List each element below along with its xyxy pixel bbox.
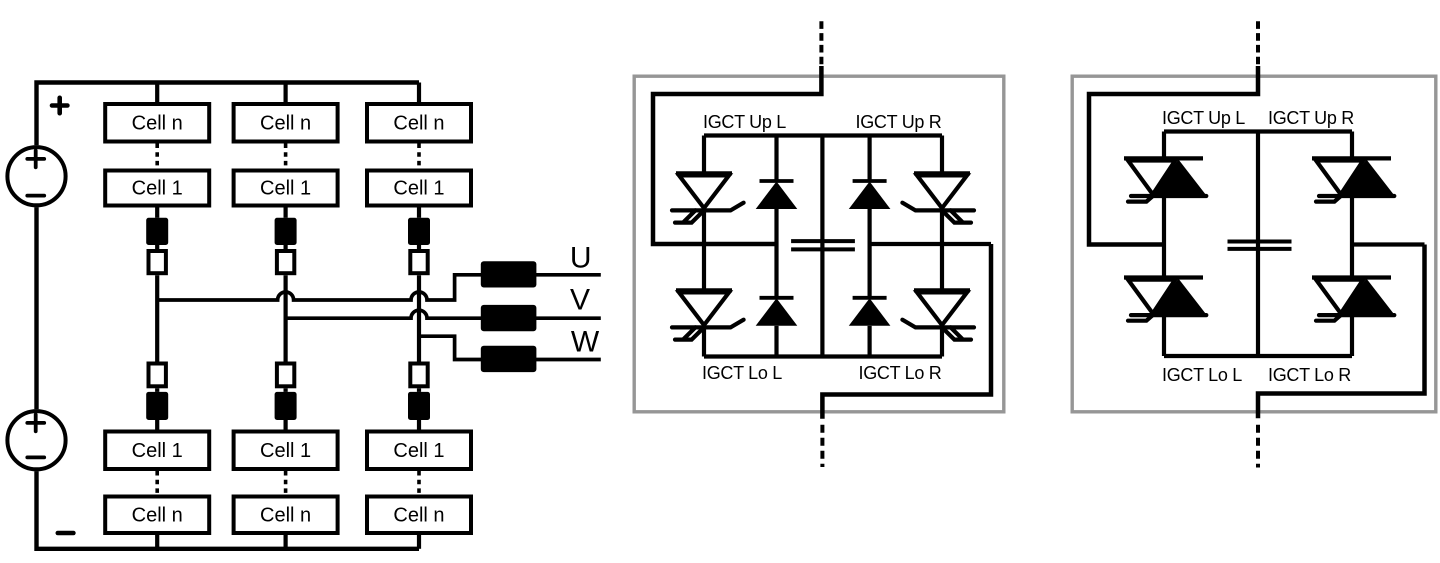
diode Lo R: [849, 298, 891, 326]
IGCT Up L (reverse conducting): [1124, 158, 1206, 201]
cell box Cell n (lower arm, phase W): [367, 497, 471, 534]
IGCT Lo R (reverse conducting): [1312, 278, 1394, 321]
wire phase W output: [419, 336, 601, 359]
dashed wire (cells n..1): [417, 144, 421, 169]
wire DC+ rail 2: [1164, 129, 1352, 133]
arm inductor (filled) lower: [275, 392, 297, 420]
capacitor C (DC link) 2: [1228, 242, 1292, 249]
svg-text:Cell 1: Cell 1: [260, 178, 311, 200]
label + (DC bus positive terminal): [52, 98, 67, 113]
svg-text:Cell n: Cell n: [260, 504, 311, 526]
arm inductor (filled) upper: [408, 218, 430, 245]
wire DC- rail: [704, 354, 942, 358]
arm inductor (filled) upper: [275, 218, 297, 245]
dashed wire (cells n..1): [155, 144, 159, 169]
wire RC-IGCT Up R leg: [1350, 132, 1354, 159]
arm resistor (open) upper: [149, 251, 166, 273]
IGCT Up R (reverse conducting): [1312, 158, 1394, 201]
wire bridge right to bottom terminal 2: [1258, 245, 1425, 419]
svg-text:IGCT Up L: IGCT Up L: [1162, 108, 1245, 128]
output inductor phase V: [481, 305, 537, 331]
wire lower-arm column 3: [417, 388, 421, 392]
wire RC-IGCT Up L leg: [1162, 132, 1166, 159]
output inductor phase U: [481, 261, 537, 287]
wire diode L leg: [774, 136, 778, 182]
wire top DC bus: [37, 83, 420, 146]
wire bottom DC bus: [37, 471, 420, 549]
voltage source V2: [7, 411, 65, 469]
diode Lo L: [756, 298, 798, 326]
cell box Cell 1 (lower arm, phase W): [367, 432, 471, 470]
dashed wire (cells n..1): [284, 144, 288, 169]
svg-text:IGCT Lo R: IGCT Lo R: [1268, 365, 1351, 385]
cell box Cell n (upper arm, phase W): [367, 104, 471, 142]
svg-text:Cell n: Cell n: [393, 504, 444, 526]
wire lower-arm column 1: [155, 388, 159, 392]
svg-text:IGCT Up R: IGCT Up R: [856, 112, 942, 132]
IGCT Up R: [902, 173, 974, 222]
arm resistor (open) upper: [410, 251, 427, 273]
wire capacitor leg: [820, 136, 824, 357]
arm resistor (open) lower: [410, 364, 427, 387]
dashed wire bottom terminal: [820, 425, 824, 467]
wire mid node right 2: [1352, 242, 1425, 246]
arm inductor (filled) lower: [146, 392, 168, 420]
cell box Cell n (upper arm, phase V): [234, 104, 338, 142]
wire DC+ rail: [704, 133, 942, 137]
wire capacitor leg 2: [1256, 132, 1260, 357]
svg-text:U: U: [570, 242, 592, 275]
svg-text:Cell n: Cell n: [260, 112, 311, 134]
svg-text:IGCT Up L: IGCT Up L: [703, 112, 786, 132]
cell detail box 2 (gray): [1072, 76, 1436, 412]
svg-text:Cell 1: Cell 1: [132, 440, 183, 462]
diode Up L: [756, 181, 798, 209]
svg-text:IGCT Lo L: IGCT Lo L: [1162, 365, 1242, 385]
output inductor phase W: [481, 346, 537, 372]
cell box Cell 1 (lower arm, phase U): [105, 432, 209, 470]
IGCT Lo L (reverse conducting): [1124, 278, 1206, 321]
diode Up R: [849, 181, 891, 209]
svg-text:Cell 1: Cell 1: [393, 178, 444, 200]
wire phase U upper-arm column 1: [155, 83, 159, 105]
arm inductor (filled) lower: [408, 392, 430, 420]
cell box Cell 1 (lower arm, phase V): [234, 432, 338, 470]
wire top terminal into bridge left: [653, 66, 821, 244]
wire between sources: [34, 207, 38, 409]
svg-text:Cell n: Cell n: [393, 112, 444, 134]
svg-text:Cell n: Cell n: [132, 112, 183, 134]
voltage source V1: [7, 147, 65, 205]
wire lower-arm column 2: [284, 388, 288, 392]
svg-text:Cell 1: Cell 1: [393, 440, 444, 462]
cell box Cell n (lower arm, phase U): [105, 497, 209, 534]
dashed wire (cells 1..n): [417, 471, 421, 495]
dashed wire (cells 1..n): [284, 471, 288, 495]
svg-text:IGCT Lo R: IGCT Lo R: [859, 363, 942, 383]
cell detail box (gray): [634, 76, 1004, 412]
arm resistor (open) lower: [277, 364, 294, 387]
dashed wire bottom terminal 2: [1256, 425, 1260, 468]
capacitor C (DC link): [791, 241, 855, 249]
cell box Cell 1 (upper arm, phase V): [234, 171, 338, 206]
cell box Cell 1 (upper arm, phase W): [367, 171, 471, 206]
svg-text:V: V: [570, 284, 590, 317]
svg-text:Cell 1: Cell 1: [132, 178, 183, 200]
label - (DC bus negative terminal): [58, 531, 74, 536]
wire bridge right to bottom terminal: [822, 244, 991, 419]
wire phase U output (hops over V and W legs): [157, 275, 601, 300]
arm resistor (open) lower: [149, 364, 166, 387]
wire DC- rail 2: [1164, 354, 1352, 358]
arm resistor (open) upper: [277, 251, 294, 273]
dashed wire top terminal: [819, 21, 823, 67]
svg-text:W: W: [571, 326, 600, 359]
cell box Cell n (upper arm, phase U): [105, 104, 209, 142]
dashed wire top terminal 2: [1256, 21, 1260, 67]
wire diode R leg: [867, 136, 871, 182]
wire top terminal into bridge left 2: [1089, 66, 1258, 245]
svg-text:Cell n: Cell n: [132, 504, 183, 526]
cell box Cell 1 (upper arm, phase U): [105, 171, 209, 206]
wire mid node right: [870, 242, 991, 246]
wire phase W upper-arm column 3: [417, 83, 421, 105]
IGCT Lo L: [672, 290, 744, 339]
svg-text:Cell 1: Cell 1: [260, 440, 311, 462]
cell box Cell n (lower arm, phase V): [234, 497, 338, 534]
svg-text:IGCT Up R: IGCT Up R: [1268, 108, 1354, 128]
IGCT Up L: [672, 173, 744, 222]
svg-text:IGCT Lo L: IGCT Lo L: [702, 363, 782, 383]
IGCT Lo R: [902, 290, 974, 339]
dashed wire (cells 1..n): [155, 471, 159, 495]
wire IGCT Up R leg: [940, 136, 944, 174]
wire IGCT Up L leg: [702, 136, 706, 174]
wire phase V upper-arm column 2: [284, 83, 288, 105]
arm inductor (filled) upper: [146, 218, 168, 245]
wire phase V output (hop over W leg): [286, 310, 601, 318]
